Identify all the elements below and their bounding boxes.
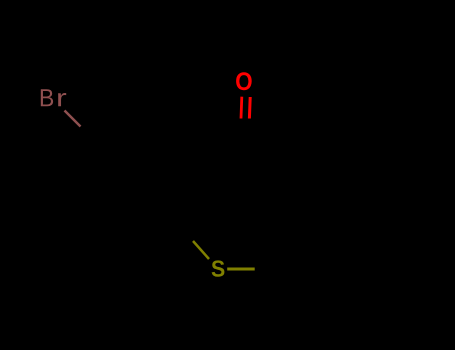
bond C-Br [65,111,81,127]
double bond C=O line 2 [248,97,252,119]
atom label S [212,260,225,276]
atom label Br [41,89,66,106]
bond C-S right [227,268,255,271]
bond C-S left [193,241,209,259]
atom label O [236,72,252,90]
double bond C=O line 1 [240,97,244,119]
